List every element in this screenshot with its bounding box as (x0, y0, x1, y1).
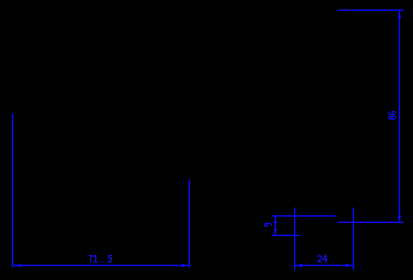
arrowhead 71.5 left (16, 264, 21, 268)
arrowhead 24 left (296, 264, 302, 268)
arrowhead 86 top (398, 13, 402, 18)
extension line middle (71.5 dim) (188, 180, 190, 268)
extension line bottom (86 dim) (338, 221, 404, 223)
dimension text 86 (rotated) (389, 111, 396, 119)
extension line top (86 dim) (338, 9, 404, 11)
arrowhead 24 right (346, 264, 352, 268)
arrowhead 86 bottom (398, 215, 402, 220)
extension line left (24 dim) (294, 207, 296, 269)
extension line left (71.5 dim) (12, 114, 14, 268)
arrowhead 9 top (274, 219, 278, 223)
arrowhead 9 bottom (274, 229, 278, 233)
dimension line 24 (295, 264, 354, 266)
arrowhead 71.5 right (182, 264, 187, 268)
dimension line 86 (vertical) (398, 10, 400, 222)
object line top (9 dim) (271, 215, 335, 217)
dimension text 9 (rotated) (265, 223, 271, 226)
object line bottom (9 dim) (271, 234, 299, 236)
dimension text 24 (318, 256, 322, 262)
dimension line 71.5 (13, 264, 189, 266)
dimension line 9 (vertical) (274, 216, 276, 236)
extension line right (24 dim) (352, 207, 354, 269)
dimension text 71.5 (89, 256, 93, 263)
